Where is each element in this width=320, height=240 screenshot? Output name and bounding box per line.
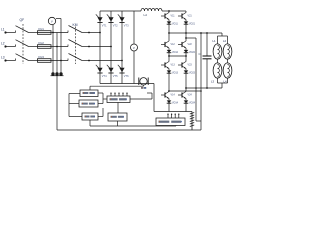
terminal L1 <box>4 31 6 33</box>
inverter mid link bus <box>169 55 186 57</box>
svg-text:V: V <box>51 19 53 23</box>
coil L2 top lead <box>227 36 229 44</box>
trigger pin 3 <box>118 93 119 96</box>
load top bracket <box>218 35 228 37</box>
inverter leg1 wire <box>168 20 170 22</box>
inverter leg1 wire <box>168 73 170 91</box>
wire fuse FU3 to contactor <box>51 60 68 62</box>
load bottom bracket <box>218 82 228 84</box>
junction tap b / phase2 <box>56 46 58 48</box>
contactor KM pole 1 blade <box>69 26 83 33</box>
wire bottom right link <box>196 120 201 122</box>
svg-text:V23: V23 <box>188 63 193 66</box>
induction coil L2 <box>223 44 232 59</box>
contactor KM pole 3 contact tick <box>67 59 69 61</box>
wire pole 1 to fuse FU1 <box>29 32 38 34</box>
wire node A to load top <box>169 32 222 34</box>
svg-text:L3: L3 <box>211 80 215 84</box>
junction DC+/left leg <box>168 10 170 12</box>
inverter leg1 wire <box>168 48 170 50</box>
block: protection circuit <box>108 113 127 121</box>
wire node D <box>169 90 201 92</box>
inverter leg2 wire <box>185 20 187 22</box>
sensor output stub <box>143 85 145 86</box>
svg-text:L1: L1 <box>213 39 217 43</box>
thyristor VT1 (top row) <box>96 14 107 27</box>
rectifier leg 1 wire <box>99 11 101 84</box>
coil L4 bottom lead <box>227 78 229 83</box>
junction mid/left leg <box>168 55 170 57</box>
wire pole 3 to fuse FU3 <box>29 60 38 62</box>
svg-text:VD23: VD23 <box>189 72 196 75</box>
svg-text:VT1: VT1 <box>102 23 107 27</box>
svg-text:VD22: VD22 <box>189 51 196 54</box>
wire right drop x=201 <box>200 33 202 130</box>
control tap wire a <box>52 25 54 73</box>
inverter leg1 wire <box>168 69 170 71</box>
junction phase2/leg2 <box>110 46 112 48</box>
wire L3 to breaker <box>6 60 16 62</box>
control left bracket wire <box>68 94 70 117</box>
inverter leg2 wire <box>185 73 187 91</box>
svg-text:VD13: VD13 <box>172 72 179 75</box>
fuse FU2 <box>38 45 52 49</box>
block: trigger circuit <box>107 96 130 103</box>
svg-text:VT6: VT6 <box>124 74 129 78</box>
junction phase3/leg3 <box>121 60 123 62</box>
block: current regulator <box>79 100 98 107</box>
drive pin 1 <box>167 114 168 118</box>
thyristor VT6 (bottom row) <box>118 65 129 78</box>
node C junction <box>185 87 187 89</box>
svg-text:V11: V11 <box>171 14 176 17</box>
text inverter drive circuit <box>159 121 182 123</box>
text speed regulator <box>83 92 95 94</box>
breaker QF pole 3 blade <box>16 54 29 61</box>
junction cap bottom <box>206 87 208 89</box>
junction mid/right leg <box>185 55 187 57</box>
svg-text:V21: V21 <box>188 14 193 17</box>
transistor V12 with diode VD12 <box>161 41 179 54</box>
block: given signal <box>82 113 98 120</box>
reactor Ld <box>141 8 162 11</box>
text current regulator <box>82 103 95 105</box>
wire KM pole 1 out <box>82 32 89 34</box>
control tap wire b <box>56 33 58 74</box>
control transformer TC <box>51 72 64 75</box>
meter PV (voltmeter) <box>48 17 55 24</box>
rectifier leg 3 wire <box>121 11 123 84</box>
text given signal <box>85 116 95 118</box>
transistor V11 with diode VD11 <box>161 13 178 26</box>
contact dot pole 3 <box>88 60 90 62</box>
resistor R (hatched) <box>190 112 194 131</box>
wire box1-box2 join <box>102 93 104 104</box>
trigger pin 4 <box>122 93 123 96</box>
DC link meter wire <box>133 11 135 84</box>
breaker QF pole 3 contact tick <box>15 59 17 61</box>
feedback wire into box1 <box>89 86 91 90</box>
wire box3 down <box>89 120 91 126</box>
transistor V14 with diode VD14 <box>161 92 179 105</box>
thyristor VT3 (top row) <box>118 14 129 27</box>
breaker QF pole 1 blade <box>16 26 29 33</box>
trigger pin 2 <box>114 93 115 96</box>
induction coil L3 <box>213 63 222 78</box>
junction node B / load bottom <box>195 87 197 89</box>
inverter leg2 wire <box>185 103 187 111</box>
current sensor TA <box>139 78 148 86</box>
wire load bottom <box>186 87 222 89</box>
coil L1-L3 link <box>217 59 219 63</box>
coil L2-L4 link <box>227 59 229 63</box>
svg-text:VD11: VD11 <box>172 23 178 26</box>
fuse FU3 <box>38 59 52 63</box>
bracket stub to box3 <box>69 116 82 118</box>
svg-text:VT4: VT4 <box>102 74 107 78</box>
wire hook to sensor output <box>147 92 152 94</box>
thyristor VT2 (top row) <box>107 14 118 27</box>
inverter leg2 wire <box>185 24 187 41</box>
junction phase1/leg1 <box>99 32 101 34</box>
wire protection to driver <box>90 125 176 127</box>
wire into trigger box <box>103 98 107 100</box>
breaker QF linkage (dashed) <box>22 24 24 64</box>
svg-text:VT3: VT3 <box>124 23 129 27</box>
wire box1 out <box>98 92 103 94</box>
junction y33 / right drop <box>200 32 202 34</box>
fuse FU1 <box>38 31 52 35</box>
rectifier leg 2 wire <box>110 11 112 84</box>
svg-text:FU3: FU3 <box>39 55 45 59</box>
wire phase1 to rectifier leg1 <box>89 32 100 34</box>
svg-text:V13: V13 <box>171 63 176 66</box>
load bottom exit wire <box>221 83 223 88</box>
transistor V22 with diode VD22 <box>178 41 196 54</box>
capacitor C top lead <box>206 33 208 56</box>
capacitor C <box>203 56 212 59</box>
wire box2 out <box>98 103 103 105</box>
DC- bus drop to inverter bottom <box>153 84 155 112</box>
inverter leg2 wire <box>185 69 187 71</box>
terminal L2 <box>4 45 6 47</box>
block: inverter drive circuit <box>156 118 185 126</box>
svg-text:FU1: FU1 <box>39 27 45 31</box>
svg-text:L4: L4 <box>224 80 228 84</box>
breaker QF pole 1 contact tick <box>15 31 17 33</box>
svg-text:VT5: VT5 <box>113 74 118 78</box>
inverter leg1 wire <box>168 11 170 13</box>
svg-text:V12: V12 <box>171 43 176 46</box>
bracket stub to box1 <box>69 93 80 95</box>
svg-text:FU2: FU2 <box>39 41 45 45</box>
inverter leg1 wire <box>168 103 170 111</box>
contact dot pole 2 <box>88 46 90 48</box>
breaker QF pole 2 blade <box>16 40 29 47</box>
wire fuse FU1 to contactor <box>51 32 68 34</box>
wire phase2 to rectifier leg2 <box>89 46 111 48</box>
meter PV2 (DC voltmeter) <box>131 44 138 51</box>
text trigger circuit <box>110 98 127 100</box>
wire trigger to protection <box>117 103 119 114</box>
svg-text:V22: V22 <box>188 43 193 46</box>
svg-text:L1: L1 <box>1 27 5 31</box>
svg-text:VD12: VD12 <box>172 51 179 54</box>
terminal L3 <box>4 59 6 61</box>
svg-text:Ld: Ld <box>144 13 148 17</box>
feedback wire to regulator <box>90 85 144 87</box>
wire phase3 to rectifier leg3 <box>89 60 122 62</box>
junction cap top <box>206 32 208 34</box>
wire up toward sensor line <box>151 93 153 99</box>
meter PV stub <box>56 18 61 20</box>
svg-text:L2: L2 <box>1 41 5 45</box>
block: speed regulator <box>80 90 98 97</box>
coil L1 top lead <box>217 36 219 44</box>
drive pin 4 <box>178 114 179 118</box>
node B junction <box>185 37 187 39</box>
node D junction <box>168 90 170 92</box>
wire KM pole 2 out <box>82 46 89 48</box>
junction y33/right leg <box>185 32 187 34</box>
contactor KM linkage (dashed) <box>75 27 77 65</box>
inverter leg1 wire <box>168 24 170 41</box>
trigger pin 5 <box>126 93 127 96</box>
wire L1 to breaker <box>6 32 16 34</box>
load top entry wire <box>221 33 223 36</box>
svg-text:VD24: VD24 <box>189 102 196 105</box>
svg-text:L3: L3 <box>1 55 5 59</box>
inverter leg2 wire <box>185 53 187 62</box>
inverter leg2 wire <box>185 99 187 101</box>
drive pin 2 <box>171 114 172 118</box>
text protection circuit <box>111 116 124 118</box>
svg-text:V14: V14 <box>171 93 176 96</box>
svg-text:VT2: VT2 <box>113 23 118 27</box>
wire fuse FU2 to contactor <box>51 46 68 48</box>
svg-text:C: C <box>199 52 201 56</box>
transistor V13 with diode VD13 <box>161 62 179 75</box>
DC- bus bottom <box>100 83 154 85</box>
inverter bottom bus <box>154 111 192 113</box>
svg-text:V24: V24 <box>188 93 193 96</box>
induction coil L1 <box>213 44 222 59</box>
wire transformer secondary down <box>56 76 58 130</box>
contactor KM pole 1 contact tick <box>67 31 69 33</box>
control tap wire c <box>60 19 62 74</box>
wire KM pole 3 out <box>82 60 89 62</box>
inverter leg2 wire <box>185 11 187 13</box>
node A junction <box>168 32 170 34</box>
svg-text:V: V <box>133 46 135 50</box>
bottom return wire <box>57 129 201 131</box>
svg-text:VD21: VD21 <box>189 23 196 26</box>
induction coil L4 <box>223 63 232 78</box>
breaker QF pole 2 contact tick <box>15 45 17 47</box>
wire box5 down <box>117 121 119 126</box>
DC+ bus to inverter <box>162 10 186 12</box>
driver box bottom stub <box>175 125 177 128</box>
contactor KM pole 3 blade <box>69 54 83 61</box>
wire node B <box>186 37 196 39</box>
svg-text:L2: L2 <box>223 39 227 43</box>
wire box3 up <box>102 108 104 117</box>
capacitor C bottom lead <box>206 59 208 88</box>
wire pole 2 to fuse FU2 <box>29 46 38 48</box>
junction tap a / phase1 <box>52 32 54 34</box>
wire box3 out <box>98 116 103 118</box>
transistor V23 with diode VD23 <box>178 62 196 75</box>
DC+ bus top <box>100 10 141 12</box>
thyristor VT4 (bottom row) <box>96 65 107 78</box>
inverter leg2 wire <box>185 48 187 50</box>
inverter leg1 wire <box>168 53 170 62</box>
svg-text:KM: KM <box>73 23 78 27</box>
junction tap c / phase3 <box>60 60 62 62</box>
contact dot pole 1 <box>88 32 90 34</box>
drive pin 3 <box>175 114 176 118</box>
label TA <box>141 87 146 89</box>
transistor V21 with diode VD21 <box>178 13 196 26</box>
inverter leg1 wire <box>168 99 170 101</box>
thyristor VT5 (bottom row) <box>107 65 118 78</box>
contactor KM pole 2 contact tick <box>67 45 69 47</box>
trigger pin 1 <box>110 93 111 96</box>
junction node D / right drop <box>200 90 202 92</box>
coil L3 bottom lead <box>217 78 219 83</box>
wire trigger box right <box>130 98 152 100</box>
wire L2 to breaker <box>6 46 16 48</box>
svg-text:QF: QF <box>20 18 25 22</box>
wire node B down right side <box>195 38 197 121</box>
bracket stub to box2 <box>69 103 79 105</box>
contactor KM pole 2 blade <box>69 40 83 47</box>
transistor V24 with diode VD24 <box>178 92 196 105</box>
svg-text:VD14: VD14 <box>172 102 179 105</box>
